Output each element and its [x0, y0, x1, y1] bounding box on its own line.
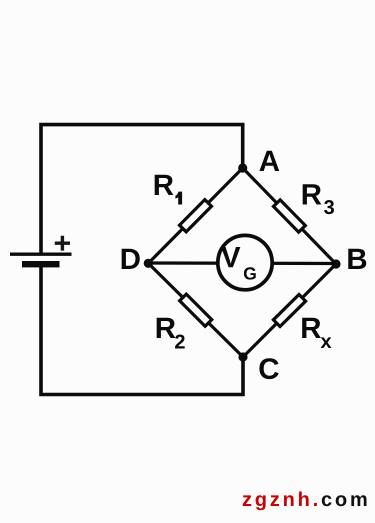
resistor R3 body	[273, 200, 305, 232]
resistor R1 body	[179, 200, 211, 232]
wire B-C (bridge edge)	[243, 264, 336, 357]
node D label	[122, 249, 140, 269]
wire bottom-left loop (battery - down to node C)	[41, 266, 243, 395]
galvanometer label G subscript	[244, 267, 256, 279]
label R3 subscript 3	[324, 200, 334, 214]
node C label	[259, 358, 278, 379]
label Rx subscript x	[321, 337, 332, 348]
watermark com (black)	[322, 495, 367, 506]
resistor R2 body	[180, 294, 212, 326]
wire top-left loop (battery + up to node A)	[41, 125, 243, 253]
resistor Rx body	[273, 294, 305, 326]
label R1 letter R	[155, 175, 174, 195]
wire D-B galvanometer branch	[148, 261, 336, 265]
wire D-C (bridge edge)	[148, 263, 243, 357]
node C junction dot	[238, 352, 247, 361]
battery B1 thin positive plate	[10, 252, 72, 255]
node B junction dot	[331, 259, 340, 268]
battery B1 thick negative plate	[22, 261, 60, 267]
label R2 letter R	[157, 318, 176, 338]
node A junction dot	[238, 163, 247, 172]
label R1 subscript 1	[175, 192, 182, 205]
galvanometer label V	[221, 247, 240, 267]
label Rx letter R	[302, 318, 321, 338]
wire A-B (bridge edge)	[243, 168, 336, 264]
galvanometer VG circle	[218, 235, 272, 289]
node D junction dot	[144, 259, 153, 268]
wire A-D (bridge edge)	[148, 168, 242, 263]
battery + polarity label	[55, 236, 70, 251]
label R2 subscript 2	[175, 335, 185, 349]
node A label	[259, 151, 279, 171]
node B label	[348, 249, 366, 269]
label R3 letter R	[303, 184, 322, 204]
watermark zgznh. (red)	[243, 492, 317, 511]
